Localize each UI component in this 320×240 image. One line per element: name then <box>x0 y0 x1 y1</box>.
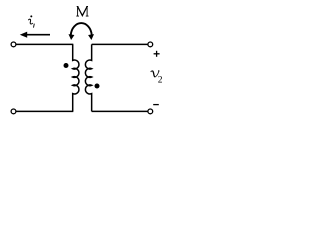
inductor L2 (right coil) <box>85 44 91 111</box>
label minus <box>153 104 159 106</box>
wire top-right <box>92 43 148 45</box>
label M <box>76 7 88 17</box>
label v2 <box>151 71 163 86</box>
polarity dot L2 <box>95 84 100 89</box>
label i1 <box>28 15 34 27</box>
label + <box>154 51 160 57</box>
svg-text:2: 2 <box>158 75 163 85</box>
mutual inductance arrow M <box>69 23 95 40</box>
wire bottom-left <box>16 110 73 112</box>
polarity dot L1 <box>64 63 69 68</box>
inductor L1 (left coil) <box>73 44 79 111</box>
wire bottom-right <box>92 110 148 112</box>
terminal top-left <box>11 42 16 47</box>
terminal bottom-left <box>11 109 16 114</box>
wire top-left <box>16 43 73 45</box>
terminal top-right <box>148 42 153 47</box>
current arrow i1 <box>20 32 50 38</box>
terminal bottom-right <box>148 109 153 114</box>
